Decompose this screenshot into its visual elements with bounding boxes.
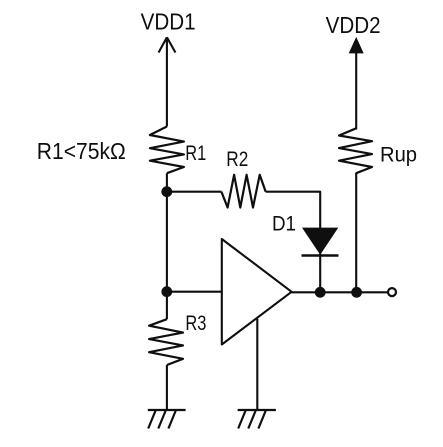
svg-text:R1<75kΩ: R1<75kΩ (37, 138, 126, 164)
svg-text:R1: R1 (185, 142, 206, 165)
svg-text:R2: R2 (226, 148, 248, 171)
svg-text:D1: D1 (272, 212, 296, 235)
svg-text:VDD2: VDD2 (326, 12, 381, 38)
svg-text:Rup: Rup (380, 143, 417, 166)
svg-text:VDD1: VDD1 (141, 9, 196, 35)
svg-text:R3: R3 (185, 312, 206, 335)
